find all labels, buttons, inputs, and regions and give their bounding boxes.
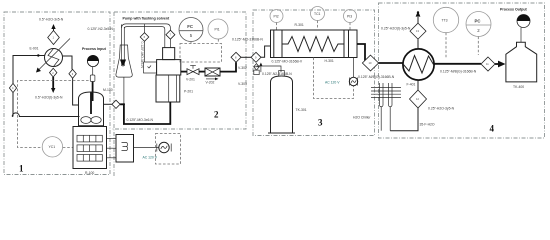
valve diamond 10 (362, 55, 378, 71)
node junction dot (37, 54, 39, 56)
FC controller bubble (179, 18, 203, 42)
wire diamond 12 down to chiller return (390, 108, 418, 131)
instrument bubble PC2 (466, 12, 491, 56)
wire diagonal flow arrow through E-001 (36, 39, 70, 73)
svg-text:P-201: P-201 (184, 90, 193, 94)
wire diamond to pump top (169, 39, 171, 47)
svg-text:Process Output: Process Output (500, 8, 528, 12)
chiller coil (371, 83, 401, 131)
wire reactor outlet to flask junction (104, 103, 112, 105)
valve diamond 11 (481, 57, 495, 71)
heat exchanger E-001 (45, 49, 63, 67)
node suction junction (123, 103, 125, 105)
section 2 left border (113, 12, 115, 176)
valve diamond 13 (410, 23, 426, 39)
pressure regulator on N2 riser (254, 63, 263, 75)
svg-text:1: 1 (19, 164, 24, 174)
svg-text:H2O Chiller: H2O Chiller (353, 115, 371, 119)
svg-text:V-303: V-303 (238, 82, 247, 86)
wire heater links to controller box (107, 138, 117, 140)
svg-text:0.25"-H2O-3y5-N: 0.25"-H2O-3y5-N (428, 107, 455, 111)
svg-text:0.125"-M/B(G)-3166B-N: 0.125"-M/B(G)-3166B-N (358, 75, 395, 79)
AC source symbol section 3 (349, 58, 357, 86)
section 3 border box (253, 10, 375, 136)
valve diamond 9 (251, 52, 261, 62)
instrument pressure gauge (half filled circle) (87, 55, 98, 66)
wire branch down to suction (144, 41, 146, 62)
wire diamond 10 to HX (379, 62, 404, 64)
svg-text:5: 5 (190, 33, 193, 38)
wire gauge to valve (92, 67, 94, 75)
valve diamond on flush branch (140, 33, 149, 42)
svg-text:PI2: PI2 (274, 15, 279, 19)
svg-text:0.125"-MO-3166B-N: 0.125"-MO-3166B-N (232, 38, 263, 42)
svg-text:PI3: PI3 (347, 15, 352, 19)
wire flushing loop outer (122, 24, 171, 30)
valve diamond above E-001 (48, 31, 60, 45)
wire suction manifold (120, 102, 170, 124)
wire R-301 outlet to diamond 10 (357, 44, 365, 61)
wire pump discharge (181, 71, 187, 73)
instrument bubble YC1 (42, 137, 62, 157)
svg-text:YC1: YC1 (49, 145, 56, 149)
instrument bubble TC1 (311, 7, 325, 31)
heater power dashed enclosure (314, 58, 354, 99)
tank TK-400 (506, 42, 537, 82)
svg-text:PC: PC (475, 19, 481, 24)
svg-text:F-401: F-401 (407, 83, 416, 87)
svg-text:AC 120 V: AC 120 V (325, 80, 340, 84)
wire pipe hop over signal line (12, 113, 79, 117)
svg-text:0.125"-MO-3x6-N: 0.125"-MO-3x6-N (127, 118, 154, 122)
impeller (81, 117, 91, 124)
stirrer shaft (90, 93, 92, 115)
svg-text:Pump with flushing solvent: Pump with flushing solvent (123, 17, 171, 21)
wire HX left pipe (13, 56, 45, 114)
wire branch from loop through diamond (144, 24, 146, 33)
wire flask outlet down (123, 77, 125, 104)
valve diamond right of E-001 (69, 69, 76, 78)
wire V-202 to diamond 8 (220, 62, 236, 71)
wire E-001 to diamond 3 (63, 56, 73, 69)
wire diamond 3 to reactor wall (73, 78, 79, 105)
svg-text:H-301: H-301 (325, 59, 334, 63)
instrument bubble PI3 (344, 10, 357, 31)
control dashed box around valves (180, 44, 222, 63)
svg-text:PI1: PI1 (215, 28, 220, 32)
instrument bubble PI2 (270, 10, 283, 31)
N2 cylinder TK-301 (268, 71, 295, 134)
wire V-201 to V-202 (199, 71, 205, 73)
wire HX to diamond 11 (433, 63, 481, 65)
svg-text:0.25"-H2O(t)-3y5-N: 0.25"-H2O(t)-3y5-N (381, 27, 411, 31)
reactor M-100 (79, 92, 104, 126)
svg-text:35·F-H2O: 35·F-H2O (420, 122, 435, 126)
svg-text:TC1: TC1 (314, 12, 321, 16)
svg-text:2: 2 (214, 110, 219, 120)
heat exchanger HX-400 (403, 49, 434, 80)
AC source symbol (157, 142, 171, 152)
signal dashed line to valve (18, 81, 89, 148)
instrument ball indicator (517, 15, 530, 43)
flask inner dip tube (121, 25, 123, 67)
control valve on process input (90, 75, 95, 82)
svg-text:TK-301: TK-301 (296, 108, 307, 112)
section 4 border box (379, 3, 545, 138)
valve diamond on flush return (166, 30, 175, 39)
svg-text:M-100: M-100 (103, 88, 113, 92)
svg-text:Process Input: Process Input (82, 47, 107, 51)
heater R-100 (73, 127, 107, 169)
svg-text:TT3: TT3 (442, 19, 448, 23)
svg-text:V-302: V-302 (238, 66, 247, 70)
wire diamond 13 to HX top (417, 39, 419, 49)
wire arrow into TK-400 (495, 61, 506, 68)
valve V-201 (187, 66, 199, 75)
wire drain stub with arrow (51, 77, 55, 93)
valve diamond below E-001 left (50, 68, 57, 77)
svg-text:0.125"-MO-3166B-V: 0.125"-MO-3166B-V (272, 60, 303, 64)
svg-text:0.5"-H2O-3x5-N: 0.5"-H2O-3x5-N (39, 18, 64, 22)
svg-text:0.125"-MO-3x5-N: 0.125"-MO-3x5-N (140, 42, 144, 69)
wire dip tube into reactor (92, 82, 94, 102)
wire vent arrow above diamond 13 (416, 11, 421, 23)
valve diamond on left pipe (9, 83, 16, 92)
label V-202 with flow arrow (206, 78, 219, 85)
svg-text:0.5"-H2O(t)-3y5-N: 0.5"-H2O(t)-3y5-N (35, 95, 63, 99)
valve diamond on border (112, 100, 120, 108)
pump seal-flush side box (144, 62, 157, 73)
wire diamond 9 to R-301 inlet (261, 46, 271, 57)
svg-text:V-202: V-202 (206, 81, 215, 85)
svg-text:V-201: V-201 (186, 78, 195, 82)
svg-text:R-301: R-301 (295, 23, 304, 27)
svg-text:4: 4 (490, 124, 495, 134)
signal dashed from FC (190, 42, 192, 44)
svg-text:E-001: E-001 (30, 47, 39, 51)
wire vent arrow up (51, 24, 55, 31)
svg-text:0.125"-N2-3x5-N: 0.125"-N2-3x5-N (88, 27, 114, 31)
signal dashed from PI1 (217, 39, 219, 44)
wire diamond 8 to diamond 9 (241, 56, 251, 58)
instrument bubble TT3 (433, 7, 458, 59)
valve diamond 8 (231, 52, 241, 62)
wire HX bottom to diamond 12 (417, 80, 419, 90)
svg-text:0.125"-N2-3166B-N: 0.125"-N2-3166B-N (262, 72, 292, 76)
instrument bubble PI1 (208, 19, 228, 39)
AC source dashed enclosure (156, 134, 181, 165)
pump P-201 (156, 48, 181, 102)
flask solvent reservoir (116, 25, 132, 78)
svg-text:TK-400: TK-400 (513, 85, 524, 89)
svg-text:FC: FC (187, 24, 193, 29)
wire flushing loop inner (124, 27, 165, 48)
power controller box 3 (116, 135, 134, 163)
section 2 border box (112, 12, 246, 129)
svg-text:2: 2 (477, 28, 480, 33)
svg-text:R-100: R-100 (85, 171, 94, 175)
heated reactor R-301 (271, 30, 358, 58)
svg-text:0.125"-M/B(G)-3166B-N: 0.125"-M/B(G)-3166B-N (440, 69, 477, 73)
wire box to AC source (134, 147, 159, 149)
section 1 border box (4, 12, 110, 175)
flow element V-202 (205, 68, 220, 76)
wire N2 cylinder to regulator (257, 66, 282, 72)
valve diamond 12 (410, 90, 427, 108)
svg-text:3: 3 (318, 118, 323, 128)
